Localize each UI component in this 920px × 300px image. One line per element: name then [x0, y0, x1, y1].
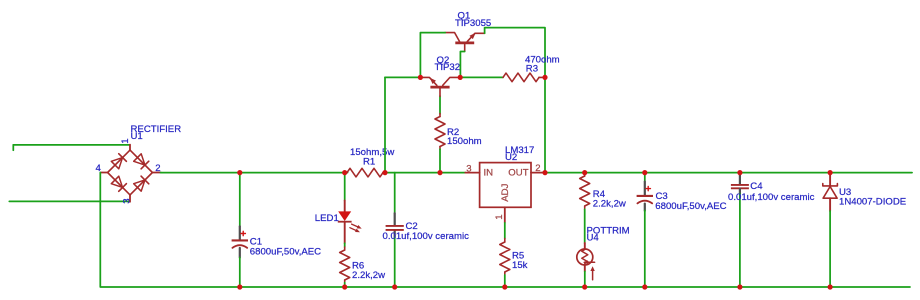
wire Q1 emitter top [485, 28, 545, 173]
resistor R2 [439, 114, 441, 117]
svg-text:LED1: LED1 [315, 213, 339, 224]
svg-text:1: 1 [494, 214, 505, 219]
svg-text:2: 2 [535, 163, 540, 174]
svg-text:6800uF,50v,AEC: 6800uF,50v,AEC [250, 246, 321, 257]
resistor R1 [347, 168, 383, 177]
LED LED1 [344, 201, 346, 213]
wire AC input top [13, 144, 129, 146]
capacitor C4 [739, 174, 741, 184]
wire negative rail (pin4 down + bottom rail) [100, 173, 910, 288]
svg-text:0.01uf,100v ceramic: 0.01uf,100v ceramic [728, 192, 815, 203]
svg-text:6800uF,50v,AEC: 6800uF,50v,AEC [655, 201, 726, 212]
svg-text:U2: U2 [505, 152, 517, 163]
svg-text:3: 3 [121, 198, 132, 203]
svg-text:IN: IN [484, 168, 494, 179]
wire C2 top [394, 173, 396, 214]
svg-text:15k: 15k [512, 260, 528, 271]
wire positive rail left [161, 172, 348, 174]
svg-text:OUT: OUT [508, 168, 528, 179]
capacitor C1 [239, 226, 241, 239]
svg-text:R1: R1 [363, 156, 375, 167]
wire AC input bottom [9, 200, 129, 202]
wire C3 bottom [644, 211, 646, 288]
wire Q2 base to R2 [439, 96, 441, 114]
svg-text:1N4007-DIODE: 1N4007-DIODE [839, 197, 906, 208]
wire Q1 collector [420, 33, 445, 78]
wire LED1 to R6 [344, 243, 346, 247]
junction dots [237, 170, 242, 175]
wire C3 top [644, 173, 646, 182]
transistor Q1 [455, 42, 474, 45]
wire U4 bottom [584, 272, 586, 288]
wire R6 bottom [344, 283, 346, 287]
svg-text:0.01uf,100v ceramic: 0.01uf,100v ceramic [383, 231, 470, 242]
svg-text:2.2k,2w: 2.2k,2w [593, 198, 626, 209]
svg-text:ADJ: ADJ [500, 183, 511, 201]
capacitor C3 [644, 182, 646, 196]
resistor R5 [504, 239, 506, 243]
rectifier U1 (bridge) [108, 150, 153, 195]
wire R5 bottom [504, 275, 506, 287]
transistor Q2 [430, 86, 449, 89]
wire R4 to U4 [584, 209, 586, 243]
svg-text:2.2k,2w: 2.2k,2w [352, 270, 385, 281]
svg-text:TIP32: TIP32 [435, 62, 461, 73]
wire C4 bottom [739, 194, 741, 288]
resistor R3 [503, 73, 539, 82]
wire Q1 base jog [460, 52, 464, 78]
wire Q2 collector to R3 [460, 76, 503, 78]
wire LED1 top [344, 173, 346, 201]
wire node Q2 emitter [385, 76, 420, 78]
wire C1 bottom [239, 258, 241, 288]
op-amp U2 LM317 body [480, 163, 531, 208]
wire U3 bottom [829, 211, 831, 287]
wire C2 bottom [394, 237, 396, 287]
svg-text:3: 3 [466, 163, 471, 174]
wire positive rail right [542, 172, 912, 174]
resistor R6 [344, 247, 346, 250]
svg-text:1: 1 [120, 138, 131, 143]
svg-text:R3: R3 [526, 64, 538, 75]
svg-text:150ohm: 150ohm [447, 136, 482, 147]
wire Q2 emitter down [384, 77, 386, 172]
resistor R4 [584, 173, 586, 176]
wire C1 top [239, 173, 241, 227]
svg-text:C4: C4 [750, 181, 763, 192]
trimmer U4 POTTRIM [584, 243, 586, 249]
capacitor C2 [394, 213, 396, 225]
wire R2 bottom [439, 149, 441, 172]
wire ADJ to R5 [504, 223, 506, 239]
svg-text:U4: U4 [587, 233, 600, 244]
diode U3 [829, 174, 831, 185]
svg-text:U1: U1 [131, 131, 143, 142]
